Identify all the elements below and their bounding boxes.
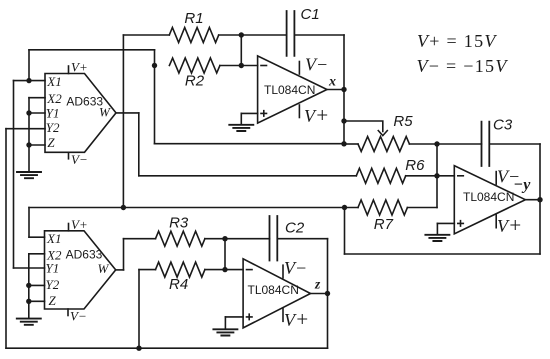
- wire R4 right to U4 input: [205, 269, 243, 271]
- ground under U1: [17, 145, 41, 178]
- svg-text:V−: V−: [305, 55, 328, 75]
- ground at U4 + input: [213, 317, 237, 336]
- svg-text:R6: R6: [405, 157, 425, 174]
- junction R2 left: [152, 63, 157, 68]
- U4 V- power tick: [283, 258, 307, 278]
- wire summing column R5 R6 R7: [436, 144, 438, 208]
- wire C1 right to output column: [294, 34, 344, 36]
- ground at U5 + input: [425, 223, 449, 241]
- resistor R1: [169, 10, 218, 42]
- resistor R3: [156, 215, 205, 247]
- wire R1 left horizontal: [123, 34, 169, 36]
- wire R3 right to C2: [205, 238, 270, 240]
- junction R5 left: [341, 141, 346, 146]
- multiplier U2 AD633 body: [45, 231, 116, 309]
- wire R3 left horizontal: [124, 238, 156, 240]
- wire top feed right drop to R2: [154, 50, 156, 66]
- wire Z row U1: [29, 144, 45, 146]
- U4 V+ power tick: [283, 307, 309, 331]
- wire integrator1 box bottom: [155, 143, 345, 145]
- wire U3 + input stub: [241, 112, 257, 114]
- svg-text:V+: V+: [71, 60, 88, 75]
- svg-text:W: W: [99, 105, 111, 120]
- U3 output stub: [327, 89, 344, 91]
- svg-text:Y1: Y1: [46, 260, 60, 275]
- svg-text:W: W: [98, 261, 110, 276]
- capacitor C1: [287, 6, 320, 56]
- svg-text:AD633: AD633: [66, 247, 103, 261]
- wire Z row U2: [29, 300, 45, 302]
- svg-text:−y: −y: [514, 177, 532, 194]
- U5 V+ power tick: [496, 213, 522, 237]
- junction node z: [325, 291, 330, 296]
- wire X1 row U2: [29, 236, 45, 238]
- wire R3 to R4 junction vertical: [224, 239, 226, 270]
- svg-text:X1: X1: [46, 231, 61, 246]
- svg-text:x: x: [328, 75, 336, 90]
- wire X1 row U1: [14, 80, 46, 82]
- svg-text:Y1: Y1: [46, 105, 60, 120]
- wire -y return horizontal: [345, 253, 541, 255]
- U3 V- power tick: [299, 55, 328, 75]
- wire R4 left horizontal: [139, 269, 156, 271]
- svg-text:Z: Z: [49, 293, 57, 308]
- junction Z U2: [26, 299, 31, 304]
- ground at U3 + input: [229, 113, 253, 131]
- U5 output stub: [525, 199, 540, 201]
- wire U2 ground column: [28, 254, 30, 301]
- junction node -y: [537, 197, 542, 202]
- junction wiper branch: [341, 118, 346, 123]
- wire Y2 row U1: [6, 128, 45, 130]
- wire U1 ground column: [28, 98, 30, 145]
- wire -y return vertical: [344, 208, 346, 255]
- svg-text:TL084CN: TL084CN: [463, 190, 514, 204]
- R5 wiper arrow: [344, 121, 387, 136]
- resistor R2: [169, 58, 220, 90]
- svg-text:Y2: Y2: [46, 277, 60, 292]
- wire R6 feed horizontal: [139, 175, 356, 177]
- U3 inverting input sign: [261, 65, 267, 67]
- wire C3 right horizontal: [489, 143, 540, 145]
- svg-text:z: z: [314, 277, 321, 292]
- wire X2 row U1: [29, 97, 45, 99]
- wire -y output drop: [539, 200, 541, 254]
- svg-text:V−: V−: [71, 152, 88, 167]
- svg-text:C1: C1: [301, 6, 320, 23]
- junction R1 right: [239, 32, 244, 37]
- wire C2 right to output column: [277, 238, 327, 240]
- junction X1 U1: [26, 78, 31, 83]
- multiplier U1 AD633 body: [45, 74, 116, 153]
- ground under U2: [17, 301, 41, 325]
- junction node x: [341, 87, 346, 92]
- svg-text:AD633: AD633: [66, 95, 103, 109]
- U1 V- pin tick: [69, 152, 88, 167]
- op-amp U5 TL084CN body: [454, 166, 525, 234]
- U2 V+ pin tick: [69, 217, 88, 232]
- svg-text:R4: R4: [169, 276, 188, 293]
- wire X1 drop U2: [28, 208, 30, 238]
- U3 non-inverting input sign: [261, 111, 267, 116]
- resistor R7: [358, 200, 407, 233]
- junction R7 feed: [342, 205, 347, 210]
- U2 V- pin tick: [68, 309, 87, 324]
- junction Y2 U2: [26, 283, 31, 288]
- wire W1 output stub: [116, 112, 139, 114]
- svg-text:V+: V+: [284, 307, 309, 331]
- svg-text:R7: R7: [374, 216, 394, 233]
- capacitor C2: [270, 216, 305, 261]
- wire R6 right to U5 input: [406, 175, 455, 177]
- junction -y feed: [121, 205, 126, 210]
- svg-text:V− = −15V: V− = −15V: [417, 56, 509, 76]
- svg-text:V+ = 15V: V+ = 15V: [417, 31, 497, 51]
- svg-text:TL084CN: TL084CN: [264, 83, 315, 97]
- wire output z column: [327, 239, 329, 349]
- U5 V- power tick: [496, 166, 520, 186]
- wire C3 left horizontal: [437, 143, 482, 145]
- wire top feed horizontal: [29, 49, 155, 51]
- wire -y feed vertical x=123.4: [122, 35, 124, 208]
- wire W1 drop to R6 feed: [138, 113, 140, 176]
- junction Y1 U1: [26, 110, 31, 115]
- U4 non-inverting input sign: [247, 314, 253, 319]
- svg-text:X1: X1: [46, 74, 61, 89]
- junction Z U1: [26, 142, 31, 147]
- wire R5 row to body: [344, 143, 358, 145]
- wire R5 right to junction: [409, 143, 437, 145]
- svg-text:V+: V+: [304, 103, 329, 127]
- svg-text:V+: V+: [71, 217, 88, 232]
- wire R1 to R2 junction vertical: [240, 35, 242, 66]
- svg-text:R1: R1: [184, 10, 203, 27]
- junction R4 right: [222, 267, 227, 272]
- svg-text:V+: V+: [497, 213, 522, 237]
- wire W2 rise to R3: [123, 239, 125, 270]
- wire Y1 row U2: [14, 267, 45, 269]
- wire R7 feed horizontal: [29, 207, 358, 209]
- U1 V+ pin tick: [69, 60, 88, 75]
- wire output x column: [343, 35, 345, 144]
- svg-text:C3: C3: [493, 116, 513, 133]
- capacitor C3: [482, 116, 513, 166]
- wire top feed left drop to X1: [28, 50, 30, 81]
- wire U5 + input stub: [437, 222, 454, 224]
- svg-text:V−: V−: [70, 309, 87, 324]
- wire z return bottom horizontal: [6, 347, 328, 349]
- wire z return left vertical: [5, 129, 7, 349]
- junction R5 right: [434, 141, 439, 146]
- wire R7 right horizontal: [407, 207, 437, 209]
- svg-text:Z: Z: [47, 135, 55, 150]
- svg-text:TL084CN: TL084CN: [248, 283, 299, 297]
- wire R2 right to U3 input: [220, 65, 258, 67]
- svg-text:C2: C2: [285, 219, 305, 236]
- U5 inverting input sign: [458, 175, 464, 177]
- wire C3 right drop to -y output: [539, 144, 541, 200]
- op-amp U4 TL084CN body: [243, 259, 310, 328]
- resistor R4: [156, 262, 205, 293]
- potentiometer R5: [358, 113, 413, 152]
- U4 inverting input sign: [247, 269, 253, 271]
- wire cross-coupling x to Y1 of U2: [13, 81, 15, 268]
- wire R4 left drop: [138, 270, 140, 349]
- junction R4 return: [136, 346, 141, 351]
- wire R1 right to C1: [219, 34, 287, 36]
- U5 non-inverting input sign: [458, 221, 464, 226]
- svg-text:Y2: Y2: [46, 120, 60, 135]
- junction R3 right: [222, 236, 227, 241]
- U4 output stub: [311, 293, 328, 295]
- wire X2 row U2: [29, 253, 45, 255]
- resistor R6: [356, 157, 425, 183]
- wire W2 output stub: [116, 269, 124, 271]
- wire Y2 row U2: [29, 284, 45, 286]
- junction R2 right: [239, 63, 244, 68]
- wire U4 + input stub: [225, 316, 243, 318]
- svg-text:R2: R2: [185, 73, 205, 90]
- wire integrator1 box left vertical: [154, 66, 156, 144]
- op-amp U3 TL084CN body: [258, 56, 327, 123]
- junction R6 right: [434, 173, 439, 178]
- svg-text:R5: R5: [393, 113, 413, 130]
- svg-text:V−: V−: [284, 258, 307, 278]
- wire Y1 row U1: [29, 112, 45, 114]
- svg-text:X2: X2: [46, 91, 62, 106]
- U3 V+ power tick: [299, 103, 329, 127]
- svg-text:R3: R3: [169, 215, 189, 232]
